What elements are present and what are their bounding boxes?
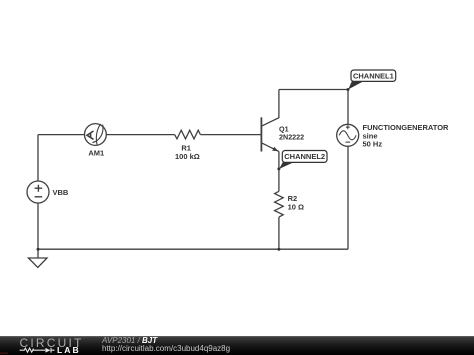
wire bottom horizontal — [38, 248, 348, 250]
node junction CHANNEL2 — [277, 167, 280, 170]
wire left vertical VBB top — [37, 135, 39, 181]
svg-text:2N2222: 2N2222 — [279, 132, 304, 141]
voltage source VBB — [27, 181, 69, 203]
node junction VBB bottom — [37, 248, 40, 251]
wire function generator bottom vertical — [347, 146, 349, 249]
logo diode — [45, 348, 50, 353]
svg-text:AM1: AM1 — [88, 149, 104, 158]
svg-text:CHANNEL2: CHANNEL2 — [284, 152, 325, 161]
ground — [28, 258, 47, 267]
node junction R2 bottom — [277, 248, 280, 251]
function generator V1 — [337, 123, 449, 148]
footer bar — [0, 336, 474, 355]
svg-text:CHANNEL1: CHANNEL1 — [353, 72, 394, 81]
url — [102, 344, 230, 353]
wire ammeter to R1 — [106, 134, 174, 136]
svg-text:50 Hz: 50 Hz — [363, 139, 383, 148]
wire R1 to Q1 base — [200, 134, 261, 136]
svg-text:10 Ω: 10 Ω — [288, 203, 304, 212]
probe label CHANNEL2 — [279, 151, 327, 169]
ammeter AM1 — [85, 124, 107, 158]
wire emitter to R2 — [278, 151, 280, 191]
logo LAB word — [57, 345, 81, 355]
node junction CHANNEL1 — [347, 88, 350, 91]
wire ground stub — [37, 249, 39, 258]
resistor R2 — [275, 191, 304, 217]
transistor Q1 — [261, 90, 304, 152]
probe label CHANNEL1 — [348, 70, 395, 89]
svg-text:100 kΩ: 100 kΩ — [175, 152, 200, 161]
wire function generator top vertical — [347, 90, 349, 125]
logo CIRCUIT word — [20, 336, 84, 350]
wire left vertical VBB bottom — [37, 203, 39, 249]
wire top-left horizontal from VBB corner to ammeter — [38, 134, 84, 136]
wire collector top horizontal — [279, 89, 348, 91]
resistor R1 — [175, 130, 201, 161]
wire R2 bottom — [278, 217, 280, 249]
title AVP2301 / BJT — [102, 336, 157, 345]
svg-text:VBB: VBB — [53, 188, 69, 197]
logo resistor zigzag — [20, 348, 46, 352]
red accent bottom-left — [0, 352, 8, 354]
